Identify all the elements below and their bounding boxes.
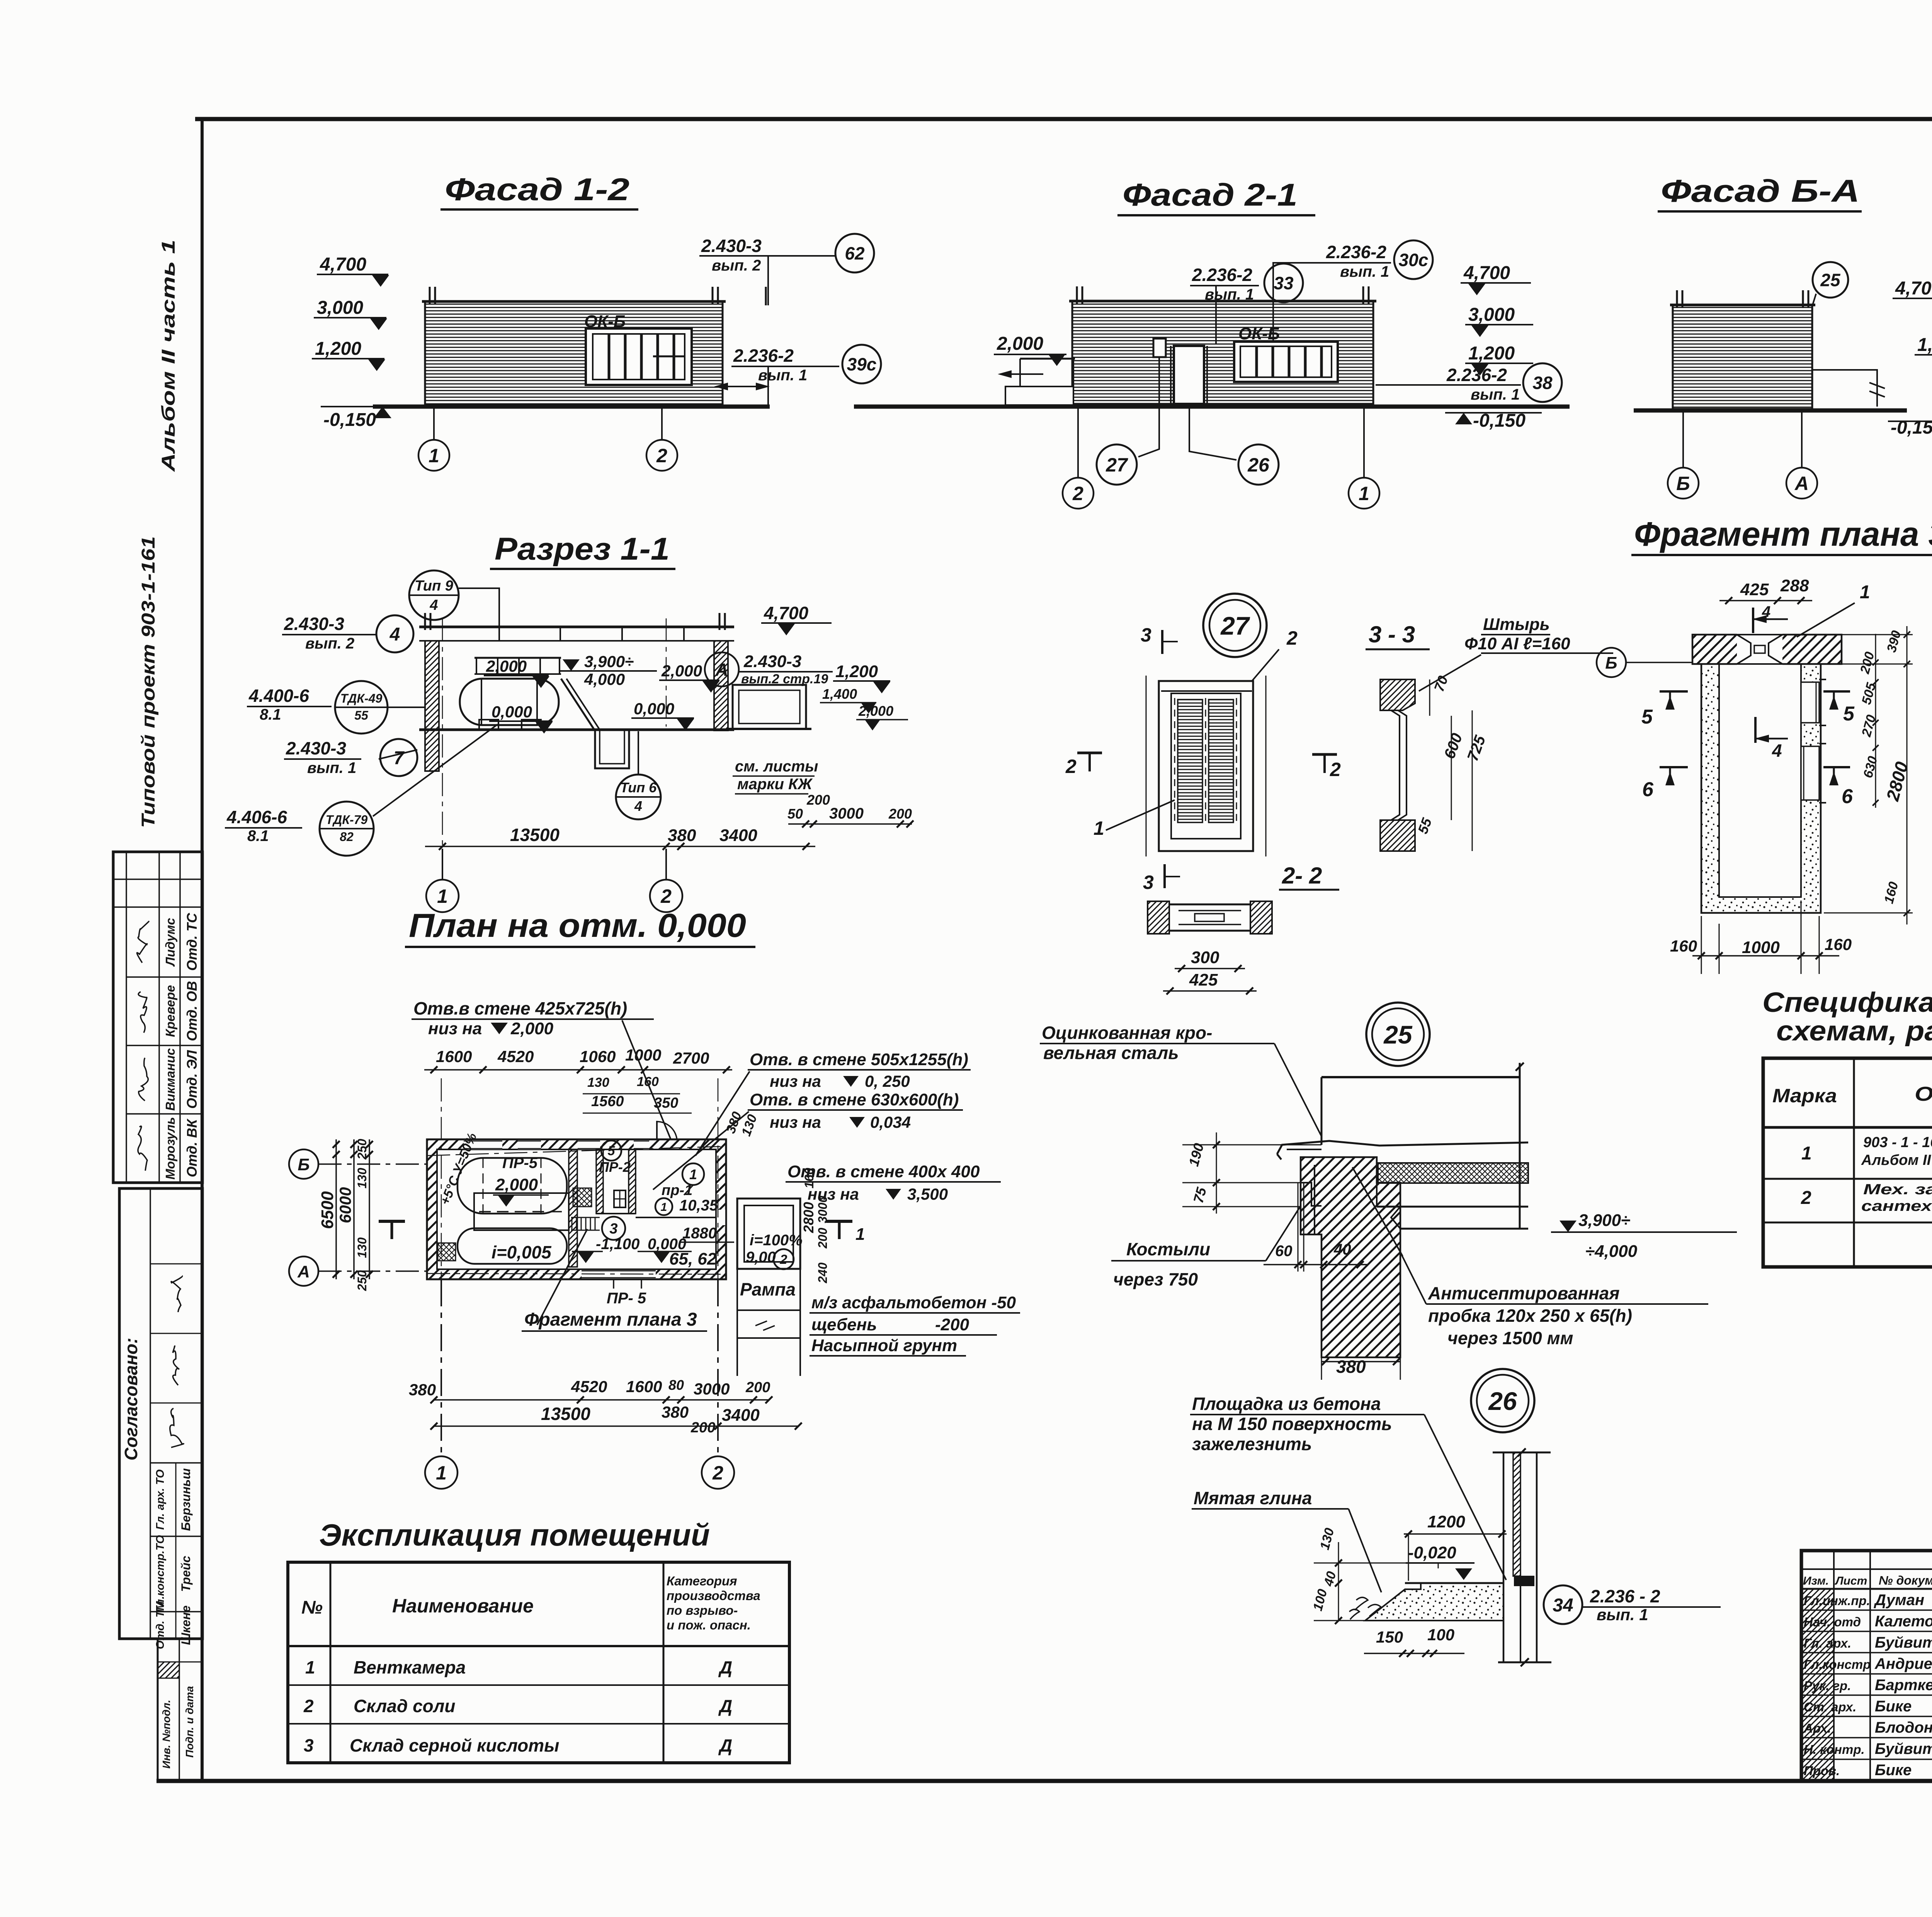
- svg-text:190: 190: [1185, 1141, 1207, 1168]
- svg-text:27: 27: [1105, 454, 1128, 476]
- sheet frame left border: [201, 119, 204, 1781]
- svg-text:ТДК-49: ТДК-49: [340, 691, 383, 705]
- plan small box with cross: [614, 1190, 626, 1207]
- svg-text:6000: 6000: [336, 1187, 354, 1223]
- detail 26 clay wedge scribbles: [1349, 1597, 1381, 1619]
- section 1-1 pit: [595, 730, 629, 768]
- svg-text:2,000: 2,000: [486, 657, 527, 675]
- svg-text:55: 55: [1415, 815, 1435, 836]
- plan wall opening bottom: [582, 1270, 656, 1279]
- plan wall openings top: [464, 1140, 502, 1149]
- svg-text:Гл.инж.пр.: Гл.инж.пр.: [1804, 1594, 1870, 1608]
- svg-text:2,000: 2,000: [997, 334, 1043, 354]
- svg-text:Трейс: Трейс: [179, 1556, 193, 1592]
- section 1-1 floor line: [419, 729, 734, 731]
- facade 2-1 leader 30c: [1273, 263, 1324, 342]
- svg-text:9,00: 9,00: [746, 1249, 776, 1266]
- svg-text:1,200: 1,200: [1468, 343, 1515, 364]
- svg-text:3000: 3000: [816, 1196, 830, 1223]
- svg-text:низ на: низ на: [770, 1072, 821, 1090]
- svg-text:2: 2: [1286, 627, 1298, 649]
- svg-text:1060: 1060: [580, 1047, 616, 1066]
- section 1-1 circle A ref: [705, 652, 739, 686]
- detail 25 circle: [1366, 1003, 1430, 1066]
- svg-text:Кревере: Кревере: [163, 985, 177, 1037]
- svg-text:3,500: 3,500: [907, 1185, 948, 1203]
- fragment right wall niches: [1801, 682, 1819, 723]
- svg-text:3000: 3000: [829, 805, 864, 822]
- section 1-1 leader TDK-79 to tank: [373, 724, 498, 816]
- svg-text:1000: 1000: [625, 1046, 661, 1064]
- facade 1-2 wall hatched: [425, 301, 723, 405]
- plan platform rect: [474, 1193, 569, 1230]
- svg-text:288: 288: [1780, 576, 1809, 595]
- svg-text:350: 350: [654, 1095, 678, 1111]
- svg-text:Гл. арх.: Гл. арх.: [1804, 1636, 1851, 1650]
- svg-text:4,700: 4,700: [1895, 278, 1932, 299]
- svg-text:А: А: [715, 660, 728, 680]
- explication table grid: [330, 1562, 332, 1763]
- svg-text:4,700: 4,700: [320, 254, 366, 275]
- svg-text:1560: 1560: [591, 1093, 624, 1110]
- svg-text:Обозначение: Обозначение: [1915, 1083, 1932, 1105]
- detail 27 circle: [1203, 594, 1267, 657]
- svg-text:3 - 3: 3 - 3: [1369, 621, 1415, 647]
- svg-text:3000: 3000: [694, 1380, 730, 1398]
- svg-text:Д: Д: [718, 1657, 732, 1677]
- svg-text:Пров.: Пров.: [1804, 1764, 1840, 1778]
- svg-text:Лист: Лист: [1835, 1575, 1867, 1587]
- svg-text:7: 7: [394, 748, 405, 768]
- facade 2-1 parapet ticks: [1076, 286, 1078, 304]
- svg-text:Гл.констр.ТО: Гл.констр.ТО: [154, 1535, 167, 1612]
- plan ladder symbol: [571, 1217, 573, 1230]
- svg-text:3400: 3400: [722, 1406, 760, 1425]
- plan circled 1 big: [682, 1163, 704, 1185]
- section 1-1 parapet ticks: [424, 613, 426, 630]
- svg-text:ПР-5: ПР-5: [502, 1154, 538, 1171]
- svg-text:200: 200: [888, 806, 912, 822]
- detail 25 roof slab lines: [1377, 1182, 1528, 1184]
- svg-text:150: 150: [1376, 1628, 1403, 1646]
- svg-text:зажелезнить: зажелезнить: [1192, 1434, 1312, 1454]
- svg-text:5: 5: [1641, 706, 1653, 728]
- facade 1-2 window OK-B: [586, 329, 692, 385]
- svg-text:Отд. ТМ: Отд. ТМ: [154, 1601, 167, 1649]
- svg-text:200: 200: [690, 1420, 715, 1436]
- plan partition 2: [596, 1149, 603, 1214]
- facade 2-1 ground line: [854, 405, 1570, 409]
- svg-text:Гл. арх. ТО: Гл. арх. ТО: [154, 1469, 167, 1530]
- svg-text:Отв. в стене 630х600(h): Отв. в стене 630х600(h): [750, 1090, 959, 1109]
- fragment axis B: [1597, 648, 1626, 677]
- facade B-A parapet ticks: [1676, 290, 1678, 308]
- svg-text:2.236-2: 2.236-2: [1192, 265, 1252, 285]
- svg-text:3400: 3400: [719, 826, 757, 845]
- detail 26 pad: [1405, 1582, 1503, 1584]
- plan ramp steps below: [737, 1309, 800, 1311]
- svg-text:Площадка из бетона: Площадка из бетона: [1192, 1394, 1381, 1414]
- sheet frame bottom border: [156, 1779, 1932, 1783]
- svg-text:Мех. завод №1 треста: Мех. завод №1 треста: [1863, 1182, 1932, 1198]
- svg-text:1: 1: [855, 1225, 865, 1244]
- svg-text:Д: Д: [718, 1735, 732, 1755]
- svg-text:3: 3: [304, 1735, 314, 1755]
- svg-text:2.236-2: 2.236-2: [1326, 242, 1386, 262]
- svg-text:4.406-6: 4.406-6: [226, 807, 287, 827]
- svg-text:26: 26: [1488, 1387, 1517, 1415]
- svg-text:240: 240: [816, 1262, 830, 1284]
- svg-text:6500: 6500: [318, 1191, 337, 1229]
- facade 2-1 small box: [1153, 339, 1166, 357]
- svg-text:Категория: Категория: [667, 1574, 737, 1588]
- facade B-A axis B: [1682, 412, 1684, 467]
- svg-text:4520: 4520: [571, 1377, 607, 1396]
- plan section mark T1 right: [826, 1220, 852, 1223]
- facade B-A step line right: [1812, 370, 1877, 407]
- svg-text:13500: 13500: [541, 1404, 590, 1424]
- svg-text:4: 4: [1772, 741, 1782, 761]
- svg-text:4.400-6: 4.400-6: [248, 686, 309, 706]
- svg-text:щебень: щебень: [811, 1315, 877, 1334]
- svg-text:130: 130: [587, 1075, 609, 1090]
- facade 1-2 leader arrow: [767, 366, 769, 405]
- svg-text:Альбом II ч.4: Альбом II ч.4: [1861, 1152, 1932, 1168]
- facade 1-2 ref circle 62: [835, 234, 874, 272]
- svg-text:3: 3: [609, 1221, 617, 1237]
- svg-text:-0,150: -0,150: [1891, 417, 1932, 438]
- plan corner hatch square: [438, 1243, 456, 1261]
- svg-text:26: 26: [1247, 454, 1270, 476]
- svg-text:Венткамера: Венткамера: [354, 1657, 466, 1677]
- plan outer walls with hatch: [427, 1139, 726, 1279]
- svg-text:80: 80: [668, 1377, 684, 1393]
- plan level arrow left: [577, 1251, 594, 1263]
- svg-text:3,900÷: 3,900÷: [1578, 1211, 1630, 1230]
- svg-text:39с: 39с: [847, 354, 877, 375]
- svg-text:200: 200: [816, 1227, 830, 1249]
- svg-text:вып. 1: вып. 1: [1340, 263, 1389, 280]
- svg-text:160: 160: [637, 1074, 659, 1089]
- svg-text:Лидумс: Лидумс: [163, 918, 177, 967]
- facade 1-2 ref circle 39c: [842, 345, 881, 383]
- section 1-1 tank supports: [479, 720, 498, 730]
- svg-text:0,034: 0,034: [870, 1113, 911, 1131]
- plan axis B left: [318, 1163, 427, 1165]
- svg-text:Фасад 1-2: Фасад 1-2: [445, 172, 629, 207]
- svg-text:Альбом II часть 1: Альбом II часть 1: [158, 240, 179, 472]
- svg-text:5: 5: [608, 1144, 616, 1158]
- svg-text:ОК-Б: ОК-Б: [584, 312, 626, 331]
- facade 2-1 door: [1174, 346, 1204, 404]
- detail 25 leader from block: [1352, 1167, 1403, 1256]
- svg-text:Отд. ВК: Отд. ВК: [184, 1118, 200, 1177]
- spec table outer: [1763, 1058, 1932, 1267]
- left stamp table A grid: [126, 852, 127, 1183]
- svg-text:м/з асфальтобетон -50: м/з асфальтобетон -50: [811, 1293, 1016, 1312]
- svg-text:100: 100: [1310, 1587, 1330, 1612]
- svg-text:Викманис: Викманис: [163, 1048, 177, 1111]
- svg-text:Тип 6: Тип 6: [620, 780, 657, 795]
- svg-text:630: 630: [1861, 754, 1880, 780]
- svg-text:40: 40: [1333, 1241, 1351, 1258]
- section 3-3 bottom block: [1380, 820, 1415, 851]
- detail 25 insulation strip: [1378, 1163, 1528, 1183]
- svg-text:38: 38: [1532, 373, 1553, 393]
- svg-text:1600: 1600: [436, 1047, 472, 1066]
- section 1-1 circle Tip6/4: [616, 775, 661, 819]
- facade B-A ground line: [1634, 409, 1907, 413]
- svg-text:725: 725: [1464, 733, 1489, 763]
- svg-text:Б: Б: [1676, 473, 1690, 494]
- svg-text:2,000: 2,000: [510, 1019, 554, 1038]
- detail 25 steel sheet: [1277, 1141, 1528, 1154]
- section 2-2 drawing: [1148, 901, 1169, 934]
- svg-text:Отд. ТС: Отд. ТС: [184, 913, 200, 971]
- svg-text:30с: 30с: [1399, 250, 1429, 270]
- svg-text:№: №: [301, 1597, 323, 1618]
- svg-text:5: 5: [1843, 703, 1855, 725]
- svg-text:Буйвите: Буйвите: [1875, 1634, 1932, 1651]
- svg-text:1,400: 1,400: [822, 686, 857, 702]
- svg-text:60: 60: [1275, 1243, 1293, 1260]
- svg-text:27: 27: [1220, 611, 1250, 640]
- svg-text:1600: 1600: [626, 1377, 662, 1396]
- svg-text:380: 380: [1336, 1357, 1366, 1377]
- svg-text:0,000: 0,000: [634, 700, 674, 718]
- svg-text:Арх.: Арх.: [1803, 1721, 1831, 1735]
- title block left rows: [1801, 1568, 1932, 1570]
- facade B-A detail circle 25: [1813, 262, 1848, 298]
- plan leader from note: [622, 1020, 671, 1139]
- svg-text:130: 130: [355, 1168, 369, 1188]
- facade 2-1 detail circle 27: [1097, 444, 1137, 485]
- svg-text:Берзиньш: Берзиньш: [179, 1468, 193, 1531]
- section 1-1 right wall: [714, 641, 728, 730]
- svg-text:200: 200: [745, 1379, 770, 1396]
- svg-text:1: 1: [689, 1166, 697, 1182]
- svg-text:65, 62: 65, 62: [669, 1250, 717, 1268]
- spec table columns: [1853, 1058, 1855, 1267]
- svg-text:-0,150: -0,150: [323, 410, 376, 430]
- svg-text:Склад серной кислоты: Склад серной кислоты: [350, 1735, 559, 1755]
- svg-text:3: 3: [1141, 624, 1151, 646]
- svg-text:Мятая глина: Мятая глина: [1194, 1488, 1312, 1508]
- svg-text:380: 380: [668, 826, 696, 845]
- svg-text:903 - 1 - 161: 903 - 1 - 161: [1863, 1134, 1932, 1151]
- svg-text:34: 34: [1553, 1595, 1573, 1616]
- svg-text:Рампа: Рампа: [740, 1279, 796, 1299]
- svg-text:№ докум.: № докум.: [1879, 1573, 1932, 1587]
- detail 26 circle 34 ref: [1544, 1585, 1582, 1624]
- fragment top wall hatched: [1692, 635, 1842, 664]
- fragment right dim chain inner: [1875, 634, 1876, 808]
- svg-text:Фасад 2-1: Фасад 2-1: [1122, 177, 1298, 213]
- svg-text:1200: 1200: [1427, 1512, 1465, 1531]
- svg-text:2800: 2800: [801, 1202, 816, 1233]
- svg-text:вып. 1: вып. 1: [1471, 386, 1520, 403]
- svg-text:8.1: 8.1: [247, 827, 269, 844]
- svg-text:6: 6: [1642, 778, 1654, 801]
- svg-text:Н. контр.: Н. контр.: [1804, 1742, 1865, 1757]
- left stamp table B rows: [150, 1462, 202, 1464]
- section 1-1 left wall: [425, 641, 439, 771]
- svg-text:1: 1: [1359, 483, 1369, 504]
- facade 2-1 window OK-B: [1234, 342, 1338, 382]
- facade 1-2 axis 2: [661, 408, 663, 439]
- fragment U wall dotted: [1701, 664, 1821, 913]
- svg-text:Костыли: Костыли: [1126, 1239, 1210, 1259]
- svg-text:200: 200: [806, 792, 830, 808]
- svg-text:4: 4: [634, 798, 642, 814]
- facade B-A wall hatched: [1673, 305, 1812, 409]
- svg-text:Тип 9: Тип 9: [415, 578, 453, 594]
- detail 27 cut 2 left: [1077, 752, 1102, 754]
- explication table outer: [288, 1562, 789, 1763]
- fragment right dim chain outer: [1906, 626, 1908, 924]
- svg-text:390: 390: [1884, 629, 1904, 654]
- facade 1-2 axis 1: [433, 408, 435, 439]
- svg-text:Ст. арх.: Ст. арх.: [1804, 1700, 1856, 1714]
- plan circled 3: [602, 1217, 625, 1240]
- svg-text:вып. 2: вып. 2: [305, 635, 354, 652]
- svg-text:вып. 2: вып. 2: [712, 257, 761, 274]
- facade 1-2 roof line: [422, 300, 726, 303]
- svg-text:1,200: 1,200: [315, 339, 361, 359]
- facade 1-2 leader to roof: [767, 256, 769, 305]
- svg-text:200: 200: [1857, 650, 1878, 676]
- svg-text:i=0,005: i=0,005: [492, 1242, 552, 1262]
- svg-text:марки КЖ: марки КЖ: [737, 776, 813, 793]
- svg-text:Инв. №подл.: Инв. №подл.: [160, 1700, 172, 1769]
- svg-text:300: 300: [1191, 948, 1219, 967]
- svg-text:425: 425: [1740, 580, 1769, 599]
- detail 27 grille outer: [1159, 681, 1253, 851]
- svg-text:низ на: низ на: [770, 1113, 821, 1131]
- svg-text:Штырь: Штырь: [1483, 615, 1550, 634]
- svg-text:Согласовано:: Согласовано:: [121, 1338, 141, 1461]
- left stamp table B Soglasovano box: [119, 1188, 202, 1639]
- plan axis 1 bottom: [441, 1078, 442, 1279]
- svg-text:вельная сталь: вельная сталь: [1043, 1043, 1179, 1063]
- facade 2-1 axis 2: [1077, 408, 1079, 477]
- svg-text:Б: Б: [298, 1155, 310, 1174]
- svg-text:2.236-2: 2.236-2: [733, 346, 794, 366]
- facade 1-2 parapet ticks right: [712, 287, 714, 305]
- spec table rows: [1763, 1126, 1932, 1129]
- section 1-1 axis 1: [442, 618, 443, 849]
- svg-text:100: 100: [1427, 1626, 1454, 1644]
- section 1-1 tank: [460, 679, 559, 725]
- svg-text:2: 2: [780, 1252, 787, 1267]
- svg-text:Изм.: Изм.: [1803, 1575, 1829, 1587]
- svg-text:А: А: [1794, 473, 1809, 494]
- svg-text:Спецификация элементов к ма: Спецификация элементов к маркировочным: [1762, 987, 1932, 1018]
- plan circled 1 small: [655, 1198, 672, 1215]
- detail 25 cornice hatched block: [1301, 1157, 1400, 1357]
- detail 26 wall: [1503, 1452, 1505, 1662]
- svg-text:600: 600: [1441, 731, 1466, 761]
- svg-text:Разрез 1-1: Разрез 1-1: [495, 531, 670, 567]
- fragment top wall opening: [1737, 633, 1782, 666]
- detail 27 top bar: [1161, 690, 1252, 692]
- left stamp table A outer box: [113, 852, 202, 1183]
- svg-text:0, 250: 0, 250: [865, 1072, 910, 1090]
- section 3-3 top block: [1380, 679, 1415, 710]
- detail 27 grille louvres: [1178, 700, 1202, 822]
- svg-text:2: 2: [1065, 756, 1077, 777]
- facade 2-1 axis 1: [1363, 408, 1365, 477]
- facade 2-1 detail circle 26: [1238, 444, 1279, 485]
- svg-text:Рук. гр.: Рук. гр.: [1804, 1679, 1851, 1693]
- facade 1-2 parapet ticks left: [429, 287, 431, 305]
- svg-text:160: 160: [1825, 935, 1852, 953]
- facade B-A axis A: [1801, 412, 1803, 467]
- svg-text:Склад соли: Склад соли: [354, 1696, 456, 1716]
- svg-text:Андриевск: Андриевск: [1874, 1655, 1932, 1672]
- svg-text:Отв.в стене 425х725(h): Отв.в стене 425х725(h): [413, 998, 627, 1018]
- facade 2-1 porch: [1005, 386, 1073, 405]
- section 1-1 axis 2: [666, 618, 667, 727]
- svg-text:ТДК-79: ТДК-79: [326, 813, 368, 827]
- section 1-1 circle Tip9/4: [409, 570, 459, 620]
- section 1-1 right annex: [733, 685, 806, 729]
- svg-text:1000: 1000: [1742, 938, 1780, 957]
- svg-text:Отд. ОВ: Отд. ОВ: [184, 981, 200, 1041]
- svg-text:Фасад Б-А: Фасад Б-А: [1661, 174, 1860, 209]
- svg-text:План на отм. 0,000: План на отм. 0,000: [409, 907, 746, 944]
- plan ramp annex: [737, 1199, 800, 1269]
- svg-text:Морозуль: Морозуль: [163, 1117, 177, 1180]
- svg-text:Наименование: Наименование: [392, 1595, 534, 1617]
- plan partition 3 horizontal: [636, 1217, 716, 1218]
- plan partition 1: [569, 1149, 577, 1267]
- svg-text:25: 25: [1383, 1020, 1413, 1049]
- svg-text:130: 130: [1317, 1526, 1337, 1551]
- svg-text:82: 82: [340, 830, 354, 844]
- svg-text:160: 160: [1670, 937, 1697, 955]
- section 3-3 leader: [1419, 655, 1481, 691]
- svg-text:1: 1: [1860, 582, 1870, 603]
- title block left columns: [1833, 1551, 1835, 1781]
- svg-text:через 750: через 750: [1113, 1269, 1198, 1289]
- detail 25 cornice profile steps: [1301, 1183, 1321, 1206]
- section 1-1 platform railing: [474, 657, 561, 659]
- detail 27 cut 2 right: [1312, 753, 1337, 756]
- svg-text:4,700: 4,700: [1463, 263, 1510, 283]
- svg-text:2: 2: [303, 1696, 314, 1716]
- svg-text:2.236 - 2: 2.236 - 2: [1590, 1586, 1660, 1606]
- svg-text:2: 2: [1801, 1188, 1811, 1208]
- svg-text:вып. 1: вып. 1: [307, 759, 356, 776]
- svg-text:1,200: 1,200: [835, 662, 878, 681]
- svg-text:160: 160: [802, 1168, 816, 1188]
- svg-text:-1,100: -1,100: [596, 1236, 639, 1253]
- svg-text:380: 380: [662, 1403, 689, 1421]
- svg-text:50: 50: [787, 806, 803, 822]
- svg-text:i=100%: i=100%: [750, 1232, 803, 1249]
- detail 26 sill black: [1514, 1576, 1534, 1586]
- detail 25 parapet outline: [1321, 1076, 1520, 1078]
- svg-text:схемам, расположенным на лис: схемам, расположенным на листе АР-7 и АР…: [1776, 1016, 1932, 1047]
- plan circled 5: [601, 1141, 621, 1161]
- svg-text:8.1: 8.1: [260, 706, 281, 723]
- svg-text:Экспликация помещений: Экспликация помещений: [319, 1518, 710, 1552]
- svg-text:ПР- 5: ПР- 5: [607, 1290, 646, 1307]
- svg-text:2,000: 2,000: [858, 703, 893, 719]
- svg-text:Насыпной грунт: Насыпной грунт: [811, 1336, 957, 1355]
- left stamp table A signatures: [137, 921, 149, 963]
